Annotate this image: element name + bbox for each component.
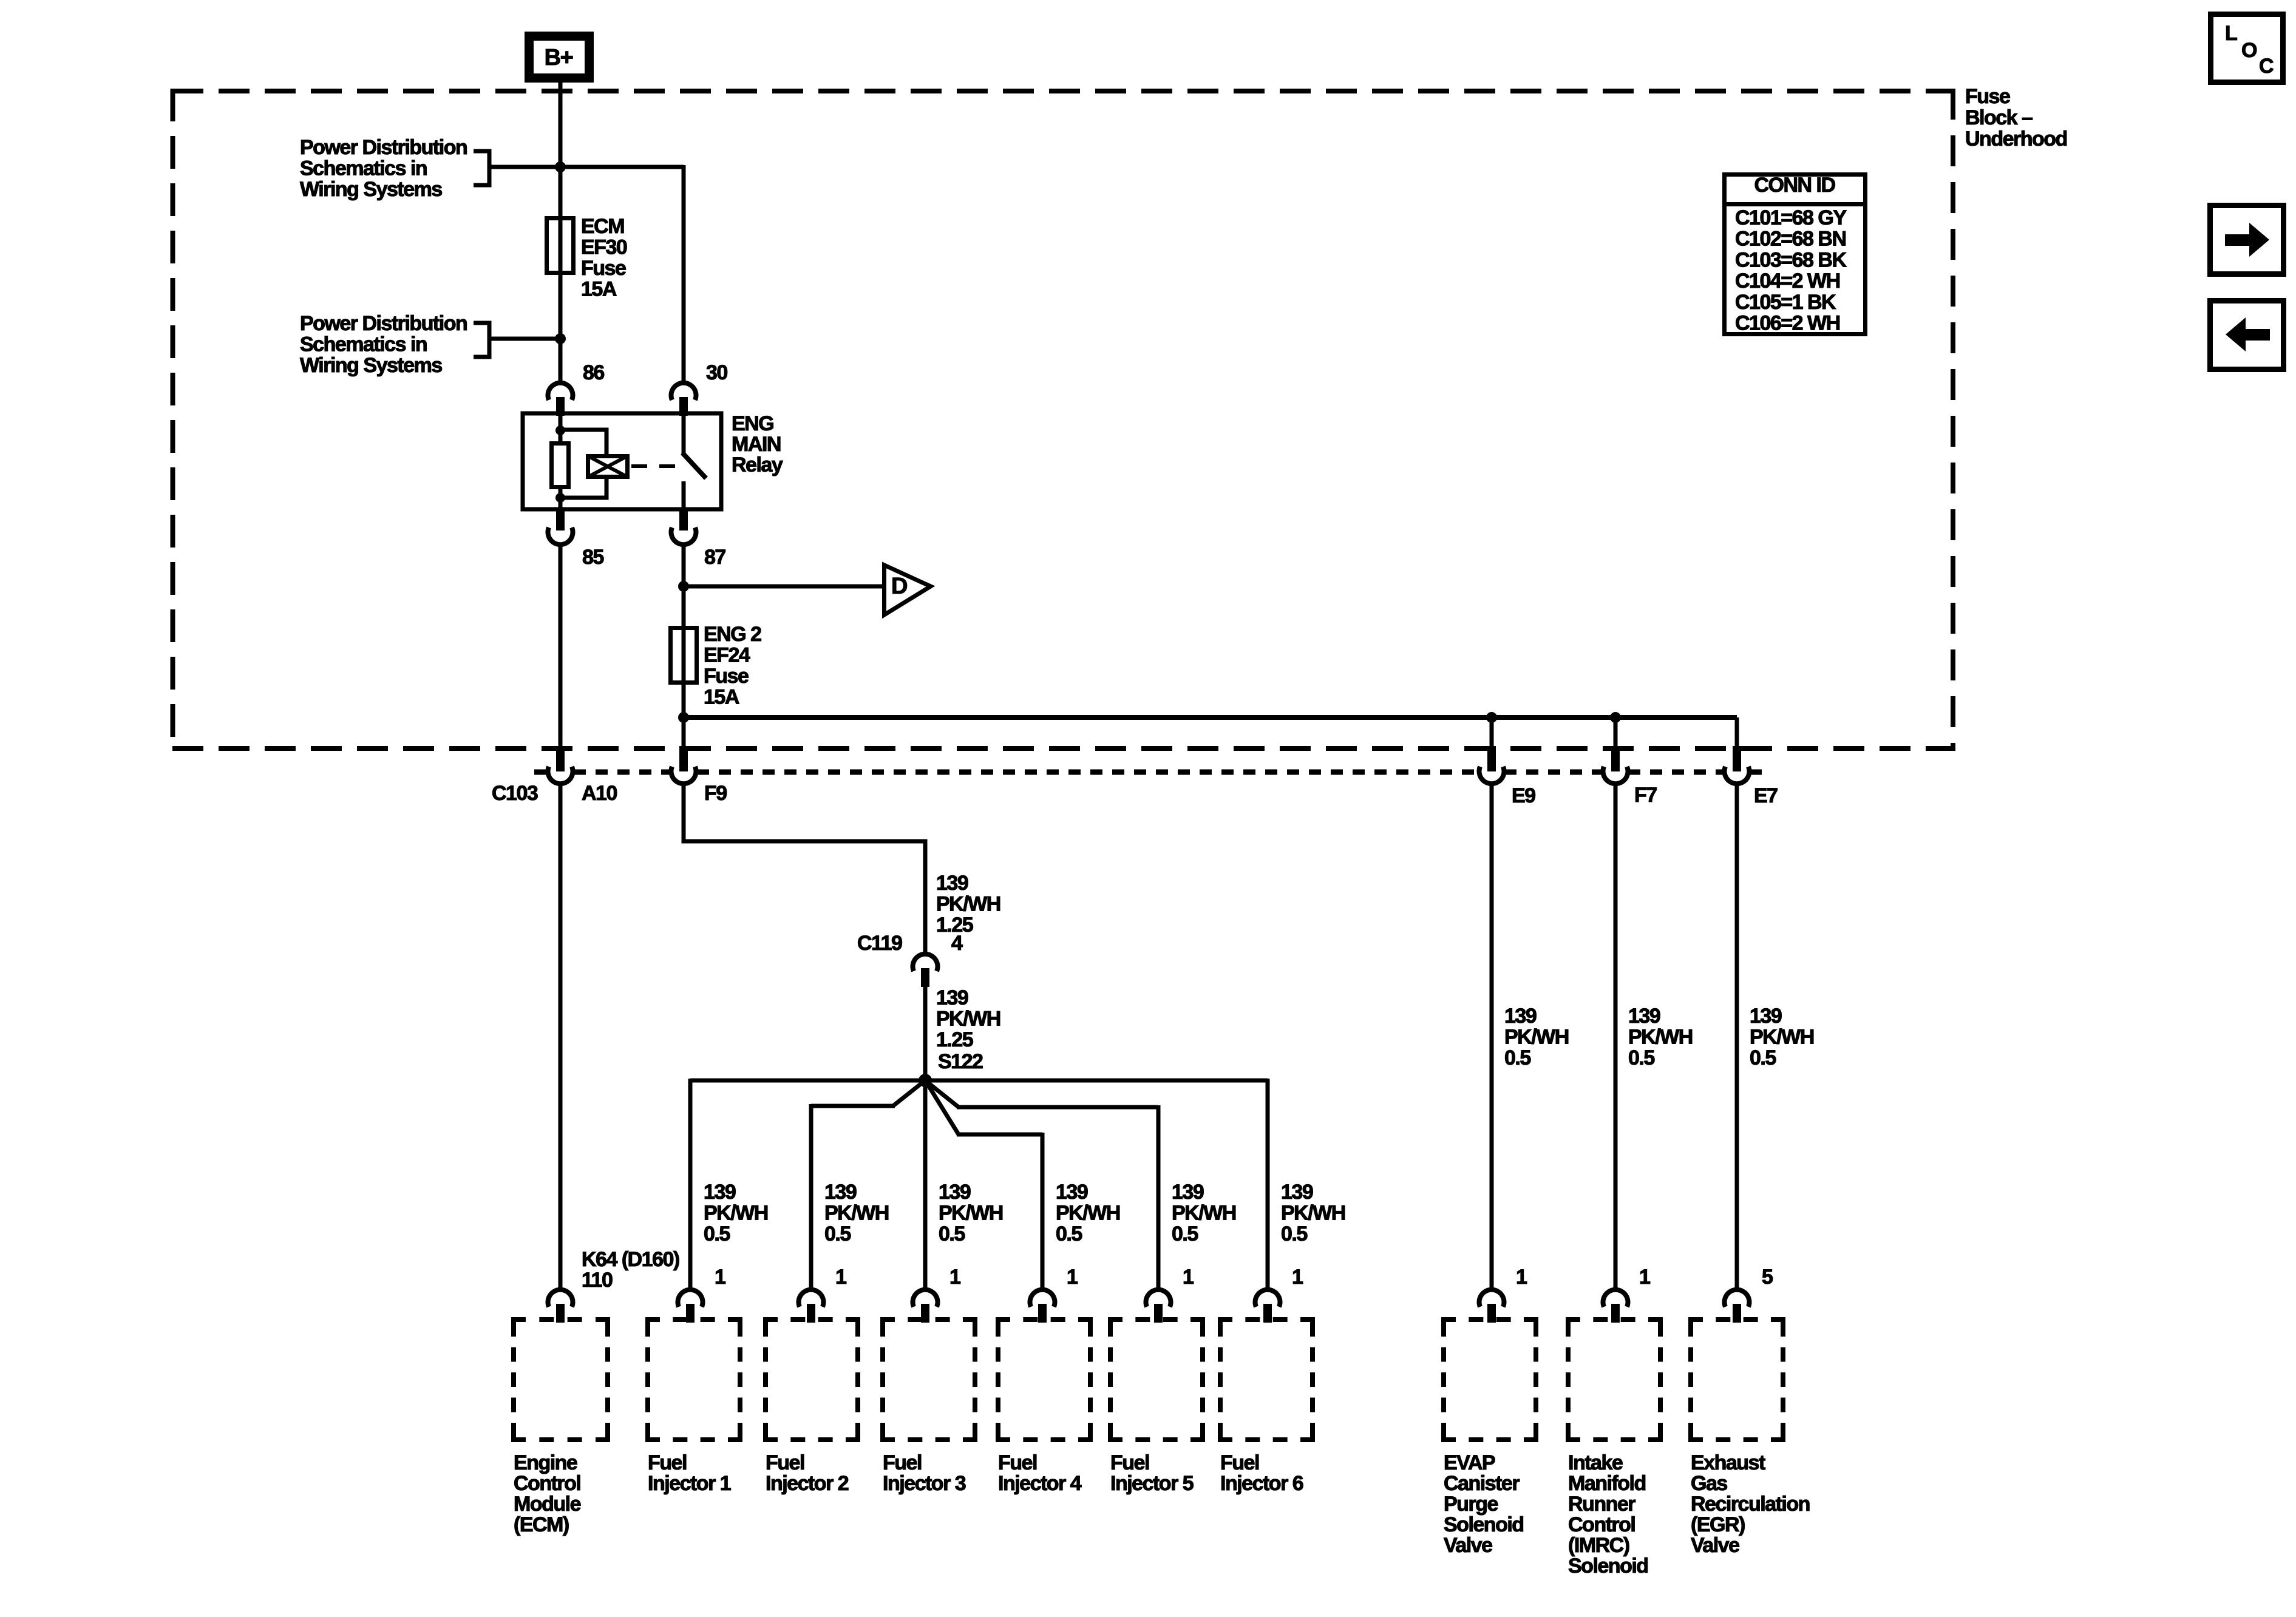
svg-text:Fuse: Fuse [704,665,749,688]
svg-text:4: 4 [951,932,963,955]
svg-text:1: 1 [1516,1266,1527,1289]
svg-text:1: 1 [835,1266,846,1289]
svg-text:B+: B+ [545,45,573,70]
svg-text:1: 1 [1183,1266,1194,1289]
svg-text:Fuel: Fuel [648,1451,687,1474]
svg-text:O: O [2241,39,2257,62]
svg-text:C103=68 BK: C103=68 BK [1735,248,1847,271]
svg-text:C103: C103 [492,782,538,805]
svg-text:139: 139 [1172,1181,1204,1204]
svg-text:Schematics in: Schematics in [300,157,427,180]
svg-text:PK/WH: PK/WH [704,1202,768,1225]
svg-text:15A: 15A [581,278,617,301]
svg-text:1: 1 [949,1266,960,1289]
svg-text:ENG 2: ENG 2 [704,623,761,646]
svg-text:1: 1 [715,1266,725,1289]
svg-text:Canister: Canister [1444,1472,1520,1495]
svg-text:0.5: 0.5 [704,1222,730,1246]
svg-text:Runner: Runner [1568,1493,1635,1516]
svg-text:S122: S122 [938,1050,983,1073]
svg-text:0.5: 0.5 [1750,1046,1776,1070]
svg-text:30: 30 [706,361,727,384]
svg-text:139: 139 [939,1181,971,1204]
svg-text:Fuse: Fuse [581,257,626,280]
svg-text:139: 139 [1281,1181,1313,1204]
svg-text:Schematics in: Schematics in [300,333,427,356]
svg-text:PK/WH: PK/WH [936,1008,1000,1031]
svg-text:Injector 2: Injector 2 [766,1472,849,1495]
svg-text:0.5: 0.5 [1504,1046,1530,1070]
svg-text:CONN ID: CONN ID [1754,174,1835,197]
svg-text:MAIN: MAIN [732,433,781,456]
svg-text:Fuel: Fuel [766,1451,804,1474]
svg-text:EF30: EF30 [581,236,627,259]
svg-text:0.5: 0.5 [1281,1222,1307,1246]
svg-text:Manifold: Manifold [1568,1472,1646,1495]
svg-text:Injector 3: Injector 3 [883,1472,966,1495]
svg-text:C: C [2259,55,2274,78]
svg-text:ENG: ENG [732,412,773,435]
svg-text:Fuse: Fuse [1965,85,2010,108]
svg-text:L: L [2225,22,2237,45]
svg-text:K64 (D160): K64 (D160) [582,1248,679,1271]
svg-text:110: 110 [582,1269,613,1292]
svg-text:1.25: 1.25 [936,1028,973,1051]
svg-text:ECM: ECM [581,215,624,238]
svg-text:Recirculation: Recirculation [1691,1493,1810,1516]
svg-text:Gas: Gas [1691,1472,1727,1495]
svg-text:PK/WH: PK/WH [1281,1202,1345,1225]
svg-text:139: 139 [1750,1005,1782,1028]
svg-text:PK/WH: PK/WH [1172,1202,1236,1225]
svg-text:139: 139 [704,1181,736,1204]
svg-text:E7: E7 [1754,784,1778,807]
svg-text:0.5: 0.5 [824,1222,851,1246]
svg-text:139: 139 [1628,1005,1660,1028]
svg-text:87: 87 [704,546,725,569]
svg-text:Purge: Purge [1444,1493,1498,1516]
svg-text:Injector 6: Injector 6 [1220,1472,1303,1495]
svg-text:139: 139 [1056,1181,1088,1204]
svg-text:139: 139 [824,1181,857,1204]
svg-text:0.5: 0.5 [939,1222,965,1246]
svg-text:(ECM): (ECM) [514,1513,569,1536]
svg-text:Fuel: Fuel [998,1451,1037,1474]
svg-text:Control: Control [514,1472,580,1495]
svg-text:PK/WH: PK/WH [1504,1026,1569,1049]
svg-text:0.5: 0.5 [1172,1222,1198,1246]
svg-text:EVAP: EVAP [1444,1451,1495,1474]
svg-text:C105=1 BK: C105=1 BK [1735,291,1836,314]
svg-text:Underhood: Underhood [1965,127,2067,151]
svg-text:86: 86 [583,361,604,384]
svg-text:Relay: Relay [732,453,783,476]
svg-text:Solenoid: Solenoid [1444,1513,1524,1536]
svg-text:Module: Module [514,1493,581,1516]
svg-text:Control: Control [1568,1513,1635,1536]
svg-text:0.5: 0.5 [1628,1046,1654,1070]
svg-text:1: 1 [1639,1266,1650,1289]
svg-text:F7: F7 [1634,784,1657,807]
svg-text:Exhaust: Exhaust [1691,1451,1765,1474]
svg-text:Power Distribution: Power Distribution [300,312,467,335]
svg-text:85: 85 [582,546,603,569]
svg-text:C102=68 BN: C102=68 BN [1735,228,1846,251]
svg-text:Valve: Valve [1444,1534,1492,1557]
svg-text:Wiring Systems: Wiring Systems [300,354,442,377]
svg-text:(IMRC): (IMRC) [1568,1534,1629,1557]
svg-text:F9: F9 [704,782,727,805]
svg-text:PK/WH: PK/WH [824,1202,889,1225]
svg-text:Valve: Valve [1691,1534,1739,1557]
svg-text:C119: C119 [857,932,902,955]
svg-text:PK/WH: PK/WH [1056,1202,1120,1225]
svg-text:Injector 1: Injector 1 [648,1472,731,1495]
svg-text:C104=2 WH: C104=2 WH [1735,269,1840,293]
svg-text:1: 1 [1067,1266,1078,1289]
svg-text:Injector 5: Injector 5 [1110,1472,1194,1495]
svg-text:0.5: 0.5 [1056,1222,1082,1246]
svg-text:PK/WH: PK/WH [1628,1026,1693,1049]
svg-text:139: 139 [936,986,968,1009]
svg-text:Wiring Systems: Wiring Systems [300,178,442,201]
svg-text:Fuel: Fuel [1220,1451,1259,1474]
svg-text:C106=2 WH: C106=2 WH [1735,312,1840,335]
svg-text:15A: 15A [704,686,739,709]
svg-text:Fuel: Fuel [883,1451,922,1474]
svg-text:Intake: Intake [1568,1451,1623,1474]
svg-text:139: 139 [936,872,968,895]
svg-text:1: 1 [1292,1266,1303,1289]
svg-text:A10: A10 [582,782,617,805]
svg-text:Engine: Engine [514,1451,577,1474]
svg-text:C101=68 GY: C101=68 GY [1735,206,1847,229]
svg-text:PK/WH: PK/WH [939,1202,1003,1225]
svg-text:Solenoid: Solenoid [1568,1554,1648,1578]
svg-text:(EGR): (EGR) [1691,1513,1745,1536]
svg-text:EF24: EF24 [704,644,750,667]
svg-text:Injector 4: Injector 4 [998,1472,1082,1495]
svg-text:PK/WH: PK/WH [936,893,1000,916]
svg-text:139: 139 [1504,1005,1537,1028]
svg-text:Power Distribution: Power Distribution [300,136,467,159]
svg-text:5: 5 [1762,1266,1773,1289]
svg-text:Block –: Block – [1965,106,2033,129]
svg-text:Fuel: Fuel [1110,1451,1149,1474]
svg-text:PK/WH: PK/WH [1750,1026,1814,1049]
svg-text:E9: E9 [1512,784,1535,807]
svg-text:D: D [891,574,907,599]
